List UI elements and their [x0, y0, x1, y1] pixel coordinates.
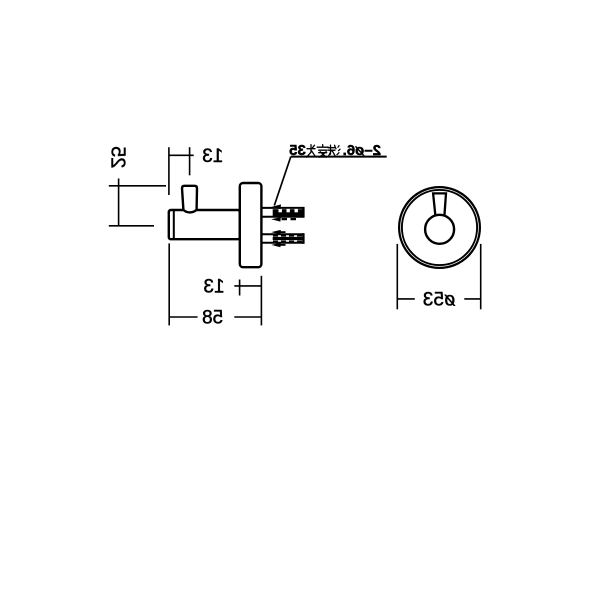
- svg-text:35: 35: [289, 142, 306, 159]
- hook arm (side view cylinder): [169, 210, 240, 239]
- knob (cone on arm, side view): [182, 186, 197, 213]
- dim extension line right (plate face): [260, 276, 262, 326]
- anchor screw 1 thread notch c: [295, 209, 298, 212]
- svg-text:2–ø6.: 2–ø6.: [343, 142, 381, 159]
- dim 13 bottom: dimension line: [234, 285, 261, 287]
- dim 13 top: extension line at arm end: [168, 147, 170, 195]
- dim 13 bottom: tick at plate left edge: [239, 280, 241, 296]
- dim 25 bottom extension line: [109, 225, 154, 227]
- anchor screw 1 bottom line: [261, 216, 303, 218]
- leader text hanzi 1 (mirrored zhang3): [307, 145, 316, 158]
- svg-text:58: 58: [202, 307, 223, 328]
- anchor screw 1 top line: [261, 207, 303, 209]
- svg-text:25: 25: [106, 146, 128, 168]
- dim phi53 right extension line: [480, 244, 482, 309]
- anchor screw 1 thread body: [273, 209, 303, 216]
- front view hub circle: [425, 215, 454, 244]
- dim 25 top extension line: [109, 185, 166, 187]
- dim phi53 dimension line left segment: [397, 298, 415, 300]
- anchor screw 2 thread core band: [273, 237, 303, 240]
- anchor screw 2 top line: [261, 233, 303, 235]
- dim 58 dimension line right segment: [234, 316, 261, 318]
- anchor screw 1 thread notch a: [279, 209, 282, 212]
- anchor screw 2 bottom line: [261, 242, 303, 244]
- svg-text:13: 13: [203, 276, 224, 297]
- svg-text:ø53: ø53: [423, 289, 456, 310]
- anchor screw 2 upper arrow: [271, 230, 281, 235]
- anchor screw 1 thread notch b: [287, 209, 290, 212]
- dim phi53 dimension line right segment: [464, 298, 480, 300]
- front view knob tab: [433, 193, 446, 215]
- anchor screw 1 upper arrow: [271, 204, 281, 209]
- wall plate (side view): [240, 183, 262, 267]
- dim 58 dimension line left segment: [169, 316, 197, 318]
- anchor screw 1 lower arrow: [271, 217, 281, 222]
- dim 25 dimension line: [118, 179, 120, 227]
- leader text hanzi 2 (mirrored sai1): [317, 145, 328, 158]
- anchor screw 1 end cap: [302, 207, 304, 218]
- leader underline: [291, 156, 387, 158]
- anchor screw 2 end cap: [302, 233, 304, 244]
- leader line to screws: [274, 157, 291, 206]
- front view outer circle: [399, 187, 480, 268]
- leader text hanzi 3 (mirrored zhang4): [328, 145, 340, 157]
- anchor screw 2 upper arrow tail: [280, 231, 286, 233]
- dim extension line left (arm end): [168, 243, 170, 325]
- front view inner circle: [402, 190, 477, 265]
- anchor screw 1 lower dashed tail: [282, 218, 300, 220]
- dim 13 top: extension line at knob center: [189, 147, 191, 175]
- svg-text:13: 13: [202, 146, 223, 167]
- anchor screw 2 lower arrow tail: [280, 244, 286, 246]
- anchor screw 2 lower dash row: [273, 240, 302, 242]
- anchor screw 2 upper dash row: [273, 235, 302, 237]
- dim 13 top: dimension line: [169, 154, 194, 156]
- arm end cap line: [173, 210, 175, 239]
- anchor screw 2 lower arrow: [271, 243, 281, 248]
- dim phi53 left extension line: [396, 244, 398, 309]
